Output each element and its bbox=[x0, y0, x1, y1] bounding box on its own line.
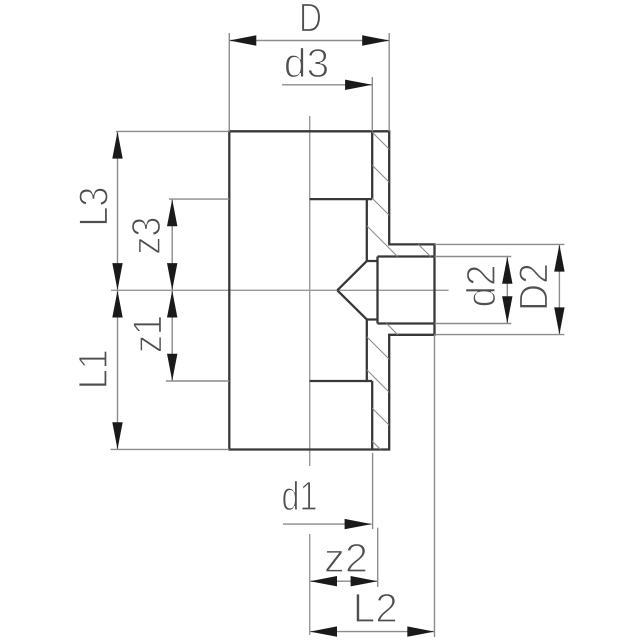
dimension z3 line bbox=[171, 199, 173, 290]
dimension d1 line bbox=[283, 523, 372, 525]
dimension D line bbox=[229, 40, 389, 42]
dimension D2 arrows bbox=[554, 245, 564, 335]
dimension L2 line bbox=[310, 631, 434, 633]
dimension z3 arrows bbox=[167, 199, 177, 290]
dimension L1 arrows bbox=[112, 291, 122, 450]
dimension L3 line bbox=[117, 132, 119, 291]
svg-text:D: D bbox=[299, 0, 322, 41]
horizontal centerline bbox=[111, 289, 449, 291]
dimension z3 extension line bbox=[169, 198, 229, 200]
svg-text:z3: z3 bbox=[123, 217, 169, 255]
svg-text:L3: L3 bbox=[71, 187, 117, 227]
upper main bore wall bbox=[366, 199, 368, 261]
dimension z1 line bbox=[171, 291, 173, 381]
dimension L3 extension line bbox=[116, 130, 229, 132]
svg-text:L1: L1 bbox=[70, 349, 116, 389]
vertical centerline upper bbox=[309, 116, 311, 466]
dimension L2 arrows bbox=[310, 626, 434, 636]
dimension z2 extension line right bbox=[377, 528, 379, 587]
dimension z2 arrows bbox=[310, 576, 378, 586]
svg-text:d1: d1 bbox=[282, 473, 318, 519]
dimension d2 line bbox=[506, 257, 508, 324]
dimension z2 line bbox=[310, 580, 378, 582]
svg-text:L2: L2 bbox=[353, 585, 398, 631]
svg-text:z1: z1 bbox=[125, 315, 171, 353]
dimension L1 extension line bbox=[111, 448, 230, 450]
dimension d2 extension lines bbox=[435, 257, 512, 324]
dimension D arrows bbox=[229, 35, 389, 45]
dimension L2 extension line right bbox=[434, 335, 436, 637]
dimension d1 extension line bbox=[372, 453, 374, 529]
bottom socket bore bbox=[310, 381, 373, 450]
svg-text:d2: d2 bbox=[458, 265, 504, 308]
dimension L3 arrows bbox=[112, 132, 122, 291]
svg-text:d3: d3 bbox=[284, 40, 330, 86]
dimension D extension lines bbox=[229, 33, 389, 131]
dimension d3 extension line bbox=[371, 77, 373, 131]
dimension d1 arrow bbox=[345, 519, 372, 529]
lower main bore wall bbox=[366, 320, 368, 382]
tee body outline bbox=[229, 131, 434, 449]
dimension z1 extension line bbox=[166, 380, 229, 382]
section hatching lower wall bbox=[360, 297, 450, 519]
svg-text:D2: D2 bbox=[511, 263, 557, 311]
dimension d3 line bbox=[282, 84, 372, 86]
dimension D2 line bbox=[558, 245, 560, 335]
top socket bore bbox=[310, 131, 373, 199]
dimension D2 extension lines bbox=[435, 244, 565, 334]
dimension L1 line bbox=[117, 291, 119, 450]
section hatching upper wall bbox=[350, 110, 450, 309]
dimension d3 arrow bbox=[345, 80, 372, 90]
branch socket bore bbox=[378, 257, 435, 324]
dimension d2 arrows bbox=[502, 257, 512, 324]
branch bore cone bbox=[337, 257, 377, 324]
dimension z1 arrows bbox=[167, 291, 177, 381]
svg-text:z2: z2 bbox=[324, 535, 368, 581]
vertical centerline lower / L2 z2 left extension bbox=[309, 534, 311, 635]
